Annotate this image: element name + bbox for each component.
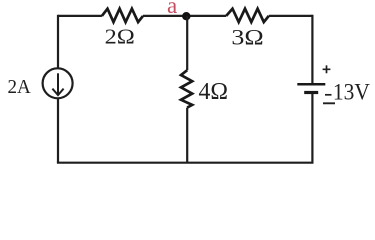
wire top-left segment <box>58 15 102 17</box>
wire left branch lower <box>57 98 59 163</box>
resistor R1 2Ω zigzag <box>102 9 143 22</box>
svg-text:13V: 13V <box>333 80 371 105</box>
current source I1 circle <box>43 68 73 98</box>
wire bottom segment <box>57 162 314 164</box>
battery plus sign <box>323 65 331 73</box>
node a junction dot <box>182 12 190 20</box>
svg-text:a: a <box>167 0 177 18</box>
hyphen dash before 13V <box>325 94 332 96</box>
wire top-middle segment <box>143 15 226 17</box>
wire middle branch lower <box>186 108 188 163</box>
svg-text:2A: 2A <box>8 76 32 98</box>
current source arrow (pointing down) <box>57 73 59 93</box>
svg-text:2Ω: 2Ω <box>105 24 135 48</box>
wire right branch upper <box>311 15 313 83</box>
battery minus sign <box>323 102 335 104</box>
wire right branch lower <box>311 94 313 163</box>
battery V1 negative plate (short) <box>304 91 318 94</box>
wire top-right segment <box>269 15 313 17</box>
wire middle branch upper <box>186 16 188 70</box>
battery V1 positive plate (long) <box>297 83 325 86</box>
wire left branch upper <box>57 15 59 69</box>
resistor R3 4Ω zigzag (vertical) <box>181 70 192 107</box>
svg-text:4Ω: 4Ω <box>199 78 229 105</box>
svg-text:3Ω: 3Ω <box>231 24 263 49</box>
resistor R2 3Ω zigzag <box>226 9 269 22</box>
